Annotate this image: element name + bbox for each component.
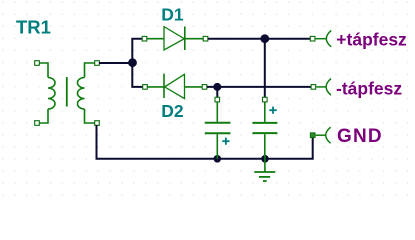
junction node D (C1 bottom): [214, 155, 222, 163]
transformer TR1 secondary winding: [78, 63, 95, 123]
junction node C: [260, 34, 269, 43]
diode D2 pin square left: [143, 85, 148, 90]
wire from node A up to D1 anode: [132, 39, 144, 63]
junction node E (C2 bottom / ground): [261, 155, 269, 163]
diode D1 pin square left: [142, 36, 147, 41]
svg-text:D1: D1: [161, 5, 184, 25]
capacitor C1 plus mark: [222, 138, 229, 145]
svg-text:-tápfesz: -tápfesz: [336, 79, 402, 99]
diode D1 pin square right: [203, 36, 208, 41]
junction node A: [128, 58, 137, 67]
terminal -tapfesz connector arc: [316, 79, 331, 96]
terminal GND connector arc: [316, 127, 331, 143]
terminal +tapfesz pin square: [310, 36, 315, 41]
capacitor C2 plus mark: [269, 107, 276, 114]
svg-text:TR1: TR1: [16, 16, 51, 37]
transformer TR1 pin 3 (top-right): [95, 61, 100, 66]
terminal GND pin square: [310, 133, 315, 138]
diode D2 pin square right: [202, 85, 207, 90]
ground: [254, 159, 275, 181]
diode D2: [148, 74, 203, 99]
capacitor C1: [205, 102, 231, 159]
terminal +tapfesz connector arc: [316, 30, 332, 46]
diode D1: [147, 27, 203, 51]
transformer TR1 core: [66, 77, 68, 107]
svg-text:D2: D2: [161, 101, 184, 121]
junction node B: [213, 83, 221, 91]
svg-text:+tápfesz: +tápfesz: [336, 30, 407, 50]
wire bottom rail from TR1 pin 4 to GND terminal: [97, 125, 313, 159]
wire D2 cathode rail to -tapfesz terminal: [207, 86, 311, 88]
capacitor C1 pin square: [215, 97, 220, 102]
terminal -tapfesz pin square: [311, 85, 316, 90]
transformer TR1 primary winding: [40, 63, 56, 123]
capacitor C2: [252, 102, 277, 159]
wire from node A down to D2: [132, 63, 144, 87]
wire D1 cathode to +tapfesz terminal: [208, 38, 311, 40]
wire node C drop to capacitor C2: [264, 39, 266, 98]
transformer TR1 pin 1 (top-left): [35, 61, 40, 66]
transformer TR1 pin 2 (bottom-left): [35, 121, 40, 126]
wire node B drop to capacitor C1: [216, 87, 218, 98]
wire from TR1 secondary top pin to node A: [99, 62, 132, 64]
transformer TR1 pin 4 (bottom-right): [95, 121, 100, 126]
capacitor C2 pin square: [263, 97, 268, 102]
svg-text:GND: GND: [337, 126, 383, 147]
